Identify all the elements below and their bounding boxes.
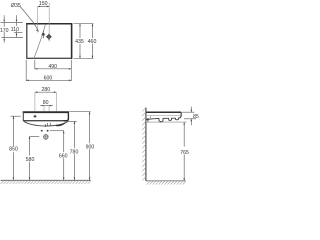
dimension 280 xyxy=(35,87,57,111)
svg-text:850: 850 xyxy=(9,146,18,152)
floor hatch right xyxy=(147,181,186,184)
svg-text:900: 900 xyxy=(86,145,95,151)
svg-text:580: 580 xyxy=(26,157,35,163)
plan section break curve xyxy=(34,24,46,58)
dimension 80 xyxy=(40,100,53,111)
front underside curve xyxy=(23,121,68,127)
side profile basin xyxy=(146,112,181,123)
front view basin rim band xyxy=(23,111,69,121)
dimension 150 xyxy=(38,1,50,42)
svg-text:150: 150 xyxy=(39,1,48,7)
svg-text:435: 435 xyxy=(75,39,84,45)
dimension 490 xyxy=(35,60,72,81)
faucet hole cross mark xyxy=(42,31,46,38)
dimension 600 xyxy=(26,60,71,82)
svg-text:460: 460 xyxy=(88,39,97,45)
dimension 900 xyxy=(69,112,94,180)
dimension 780 xyxy=(65,121,79,179)
svg-text:Ø35: Ø35 xyxy=(11,3,21,9)
fixing dots xyxy=(41,130,49,132)
svg-text:660: 660 xyxy=(59,153,68,159)
dimension 765 xyxy=(146,122,189,181)
drain circle xyxy=(43,134,49,140)
svg-text:765: 765 xyxy=(180,150,189,156)
dimension 110 xyxy=(11,15,23,37)
dim line 435 xyxy=(79,24,81,38)
wall line xyxy=(145,108,147,181)
dimension 660 xyxy=(50,131,68,180)
dimension 580 xyxy=(26,136,40,180)
wall hatch xyxy=(142,108,146,181)
svg-text:110: 110 xyxy=(11,27,19,33)
dimension 850 xyxy=(9,116,21,180)
floor line left xyxy=(1,179,91,181)
dimension 85 xyxy=(181,107,199,126)
floor hatch left xyxy=(1,181,91,184)
top reference line for 170/110 xyxy=(1,21,23,23)
front faucet cross xyxy=(34,115,37,118)
floor line right xyxy=(146,180,186,182)
leader to faucet hole xyxy=(20,6,39,32)
faucet hole target symbol xyxy=(46,34,52,41)
svg-text:85: 85 xyxy=(193,114,199,120)
dim line 460 xyxy=(92,24,94,38)
plan view basin outline xyxy=(26,23,72,59)
dimensions 435 / 460 xyxy=(74,24,97,59)
dimension 170 xyxy=(0,15,23,42)
